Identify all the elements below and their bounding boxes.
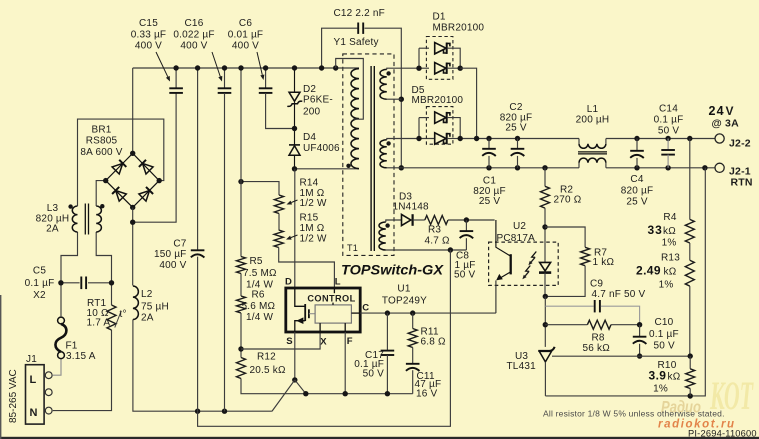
svg-text:t°: t° xyxy=(120,309,127,320)
wire L2 to DC minus line xyxy=(133,320,272,412)
svg-text:UF4006: UF4006 xyxy=(303,143,340,154)
shunt regulator U3 TL431 xyxy=(538,347,554,351)
U2 phototransistor xyxy=(496,220,511,256)
svg-text:1%: 1% xyxy=(653,384,668,395)
svg-text:33: 33 xyxy=(648,223,663,237)
inductor L2 75uH 2A xyxy=(133,286,139,320)
BR1 diode top-left xyxy=(112,163,123,174)
svg-text:0.1 µF: 0.1 µF xyxy=(649,329,679,340)
wire top DC bus xyxy=(133,67,336,69)
wire RT1 to C5/L3 xyxy=(96,232,111,305)
resistor R6 5.6M 1/4W xyxy=(240,274,242,297)
svg-text:820 µF: 820 µF xyxy=(621,186,654,197)
svg-text:C: C xyxy=(362,303,369,314)
wire R15 to L pin xyxy=(279,248,335,289)
wire LED cathode chain xyxy=(544,296,546,347)
svg-text:7.5 MΩ: 7.5 MΩ xyxy=(243,268,277,279)
svg-text:1.7 A: 1.7 A xyxy=(87,317,111,328)
T1 secondary winding 1 xyxy=(380,69,387,99)
svg-text:C5: C5 xyxy=(33,266,46,277)
capacitor C17 0.1uF 50V xyxy=(386,313,388,350)
svg-text:Y1 Safety: Y1 Safety xyxy=(334,37,379,48)
op-amp U1 TOP249Y TOPSwitch-GX box xyxy=(286,288,360,332)
svg-text:C10: C10 xyxy=(655,317,674,328)
svg-text:kΩ: kΩ xyxy=(663,226,676,237)
capacitor C9 4.7nF 50V xyxy=(545,305,594,307)
wire BR1 plus to bus xyxy=(132,68,134,153)
resistor R11 6.8 ohm xyxy=(412,313,414,328)
svg-text:C14: C14 xyxy=(659,104,678,115)
optocoupler U2 PC817A xyxy=(489,242,559,285)
svg-text:BR1: BR1 xyxy=(91,125,111,136)
svg-text:U1: U1 xyxy=(397,284,410,295)
svg-text:R13: R13 xyxy=(661,253,680,264)
svg-text:1 kΩ: 1 kΩ xyxy=(593,257,615,268)
BR1 diode bottom-right xyxy=(139,191,150,202)
svg-text:1%: 1% xyxy=(659,280,674,291)
svg-text:8A 600 V: 8A 600 V xyxy=(80,147,122,158)
resistor R12 20.5k xyxy=(237,358,246,379)
capacitor C8 1uF 50V xyxy=(465,220,467,231)
svg-text:C2: C2 xyxy=(509,102,522,113)
svg-text:All resistor 1/8 W 5% unless o: All resistor 1/8 W 5% unless otherwise s… xyxy=(543,409,725,419)
svg-text:T1: T1 xyxy=(347,243,358,253)
svg-text:N: N xyxy=(30,407,38,419)
T1 primary tap wire xyxy=(336,59,364,120)
svg-text:C6: C6 xyxy=(239,18,252,29)
wire TL431 ref xyxy=(552,355,690,357)
svg-text:D1: D1 xyxy=(433,12,446,23)
capacitor C5 0.1uF X2 xyxy=(61,282,80,284)
svg-text:S: S xyxy=(286,336,293,347)
svg-text:RS805: RS805 xyxy=(86,136,118,147)
connector J1 xyxy=(26,365,45,424)
svg-text:F: F xyxy=(347,336,353,347)
svg-text:V: V xyxy=(726,104,734,118)
capacitor C10 0.1uF 50V xyxy=(639,325,641,336)
svg-text:400 V: 400 V xyxy=(159,260,186,271)
svg-text:2A: 2A xyxy=(141,313,154,324)
wire R2 node to R7 xyxy=(545,227,585,247)
svg-text:kΩ: kΩ xyxy=(664,267,677,278)
svg-text:L3: L3 xyxy=(47,203,59,214)
diode D3 1N4148 xyxy=(402,214,411,225)
diode pair D1 MBR20100 xyxy=(426,37,453,80)
wire L3 to bridge AC1 xyxy=(78,119,164,206)
resistor R14 1M 1/2W xyxy=(241,182,279,195)
resistor R4 33k 1% xyxy=(689,139,691,220)
TVS D2 P6KE-200 xyxy=(294,68,296,92)
wire RTN rail xyxy=(401,167,579,169)
svg-text:50 V: 50 V xyxy=(658,126,680,137)
inductor L1 200uH xyxy=(578,139,580,144)
svg-text:R3: R3 xyxy=(428,225,441,236)
svg-text:25 V: 25 V xyxy=(505,123,527,134)
capacitor C12 2.2nF Y1 xyxy=(322,28,358,68)
T1 primary winding xyxy=(336,67,359,69)
svg-text:TOPSwitch-GX: TOPSwitch-GX xyxy=(341,262,445,278)
svg-text:3.15 A: 3.15 A xyxy=(66,351,96,362)
transformer T1 dashed box xyxy=(343,54,394,256)
svg-text:0.022 µF: 0.022 µF xyxy=(173,30,214,41)
svg-text:50 V: 50 V xyxy=(363,369,385,380)
svg-text:R12: R12 xyxy=(257,352,276,363)
svg-text:C12 2.2 nF: C12 2.2 nF xyxy=(334,8,385,19)
wire J1 L to fuse xyxy=(53,359,61,376)
svg-text:L: L xyxy=(30,374,37,386)
U1 internal MOSFET xyxy=(295,288,305,306)
wire C15 bottom to BR1 minus xyxy=(133,93,176,222)
svg-text:85-265 VAC: 85-265 VAC xyxy=(8,369,19,423)
fuse F1 3.15 A xyxy=(58,317,65,324)
T1 secondary winding 2 xyxy=(380,140,387,168)
capacitor C2 820uF 25V xyxy=(517,139,519,149)
svg-text:4.7 nF 50 V: 4.7 nF 50 V xyxy=(592,289,646,300)
svg-text:@ 3A: @ 3A xyxy=(712,118,740,130)
wire drain node xyxy=(295,168,360,170)
resistor R5 7.5M 1/4W xyxy=(240,68,242,257)
svg-text:R5: R5 xyxy=(250,256,263,267)
svg-text:D2: D2 xyxy=(303,84,316,95)
svg-text:L2: L2 xyxy=(141,289,153,300)
wire BR1 minus down xyxy=(132,207,134,285)
svg-text:C16: C16 xyxy=(185,18,204,29)
svg-text:J2-2: J2-2 xyxy=(729,138,751,150)
U1 internal control block xyxy=(315,305,351,323)
svg-text:150 µF: 150 µF xyxy=(154,249,187,260)
svg-text:D4: D4 xyxy=(303,132,316,143)
svg-text:P6KE-: P6KE- xyxy=(303,95,333,106)
BR1 diode top-right xyxy=(143,163,154,174)
svg-text:RTN: RTN xyxy=(731,177,753,189)
svg-text:400 V: 400 V xyxy=(135,41,162,52)
wire source node legs xyxy=(272,380,295,412)
svg-text:R14: R14 xyxy=(300,178,319,189)
wire S pin to source node xyxy=(294,332,296,380)
svg-text:270 Ω: 270 Ω xyxy=(554,195,582,206)
svg-text:CONTROL: CONTROL xyxy=(307,293,355,303)
wire L3 to bridge AC2 xyxy=(96,181,106,206)
svg-text:1/2 W: 1/2 W xyxy=(300,233,327,244)
wire +24V rail xyxy=(460,138,579,140)
resistor R3 4.7 ohm xyxy=(425,216,448,225)
svg-text:3.9: 3.9 xyxy=(649,369,667,383)
svg-text:2.49: 2.49 xyxy=(636,264,661,278)
svg-text:C15: C15 xyxy=(139,18,158,29)
svg-text:16 V: 16 V xyxy=(416,388,438,399)
wire C pin xyxy=(360,312,496,314)
terminal J2-2 xyxy=(715,134,724,143)
svg-text:200: 200 xyxy=(303,107,321,118)
svg-text:X2: X2 xyxy=(33,290,46,301)
capacitor C11 47uF 16V xyxy=(412,348,414,364)
svg-text:1/4 W: 1/4 W xyxy=(246,312,273,323)
U2 LED xyxy=(540,262,551,271)
svg-text:75 µH: 75 µH xyxy=(141,302,169,313)
resistor R10 3.9k 1% xyxy=(689,356,691,369)
svg-text:MBR20100: MBR20100 xyxy=(412,95,464,106)
border bottom xyxy=(0,437,759,439)
svg-text:0.33 µF: 0.33 µF xyxy=(131,30,167,41)
svg-text:25 V: 25 V xyxy=(479,196,501,207)
svg-text:6.8 Ω: 6.8 Ω xyxy=(421,337,446,348)
svg-text:1N4148: 1N4148 xyxy=(393,202,429,213)
wire R12 to source rail xyxy=(241,379,413,394)
T1 bias winding xyxy=(379,222,386,250)
svg-text:400 V: 400 V xyxy=(180,41,207,52)
svg-text:50 V: 50 V xyxy=(454,270,476,281)
svg-text:56 kΩ: 56 kΩ xyxy=(583,343,611,354)
svg-text:2A: 2A xyxy=(46,224,59,235)
BR1 diode bottom-left xyxy=(116,191,127,202)
capacitor C4 820uF 25V xyxy=(636,139,638,151)
capacitor C6 0.01uF 400V xyxy=(265,68,267,88)
svg-text:TOP249Y: TOP249Y xyxy=(382,296,427,307)
wire TL431 anode loop xyxy=(545,168,705,396)
svg-text:25 V: 25 V xyxy=(626,197,648,208)
wire D2 to D4 xyxy=(294,102,296,145)
svg-text:0.1 µF: 0.1 µF xyxy=(654,115,684,126)
svg-text:D: D xyxy=(285,277,292,288)
svg-text:0.1 µF: 0.1 µF xyxy=(25,278,55,289)
svg-text:L1: L1 xyxy=(587,104,599,115)
wire X pin xyxy=(241,332,320,349)
wire F pin down xyxy=(344,332,346,394)
svg-text:24: 24 xyxy=(709,104,725,118)
svg-text:R8: R8 xyxy=(592,333,605,344)
wire R6 to R12 node xyxy=(240,313,242,358)
resistor R15 1M 1/2W xyxy=(278,214,280,231)
svg-text:R6: R6 xyxy=(252,290,265,301)
svg-text:J1: J1 xyxy=(26,354,37,365)
resistor R13 2.49k 1% xyxy=(689,243,691,260)
svg-text:TL431: TL431 xyxy=(507,361,537,372)
U2 light arrows xyxy=(532,252,537,258)
resistor R2 270 ohm xyxy=(544,168,546,187)
svg-text:PC817A: PC817A xyxy=(497,233,536,244)
svg-text:200 µH: 200 µH xyxy=(576,115,610,126)
capacitor C7 150uF 400V xyxy=(197,68,199,250)
wire drain to D pin xyxy=(294,169,296,288)
svg-text:4.7 Ω: 4.7 Ω xyxy=(425,236,450,247)
capacitor C14 0.1uF 50V xyxy=(667,139,669,150)
capacitor C15 0.33uF 400V xyxy=(175,68,177,88)
capacitor C1 820uF 25V xyxy=(488,139,490,149)
svg-text:U2: U2 xyxy=(513,221,526,232)
bridge rectifier BR1 RS805 xyxy=(106,153,160,207)
diode pair D5 MBR20100 xyxy=(426,107,453,145)
svg-text:5.6 MΩ: 5.6 MΩ xyxy=(242,301,276,312)
svg-text:20.5 kΩ: 20.5 kΩ xyxy=(250,365,286,376)
wire J1 N to RT1 xyxy=(53,330,112,411)
svg-text:0.01 µF: 0.01 µF xyxy=(228,30,264,41)
terminal J2-1 xyxy=(715,163,724,172)
svg-text:kΩ: kΩ xyxy=(668,372,681,383)
svg-text:400 V: 400 V xyxy=(232,41,259,52)
svg-text:1/2 W: 1/2 W xyxy=(300,198,327,209)
resistor R7 1k xyxy=(581,247,590,265)
resistor R8 56k xyxy=(545,324,587,326)
svg-text:C7: C7 xyxy=(173,239,186,250)
common-mode choke L3 820uH 2A xyxy=(72,206,77,232)
svg-text:MBR20100: MBR20100 xyxy=(433,23,485,34)
svg-text:C1: C1 xyxy=(483,176,496,187)
wire F1 to C5/L3 xyxy=(61,232,78,317)
T1 core xyxy=(370,66,372,251)
svg-text:1%: 1% xyxy=(662,238,677,249)
svg-text:50 V: 50 V xyxy=(654,341,676,352)
capacitor C16 0.022uF 400V xyxy=(224,68,226,88)
svg-text:L: L xyxy=(335,277,341,288)
svg-text:R15: R15 xyxy=(300,213,319,224)
svg-text:X: X xyxy=(320,337,327,348)
svg-text:R4: R4 xyxy=(663,212,676,223)
thermistor RT1 10 ohm 1.7 A xyxy=(107,305,116,330)
wire bias return xyxy=(198,250,451,426)
svg-text:C4: C4 xyxy=(630,174,643,185)
diode D4 UF4006 xyxy=(289,144,300,146)
